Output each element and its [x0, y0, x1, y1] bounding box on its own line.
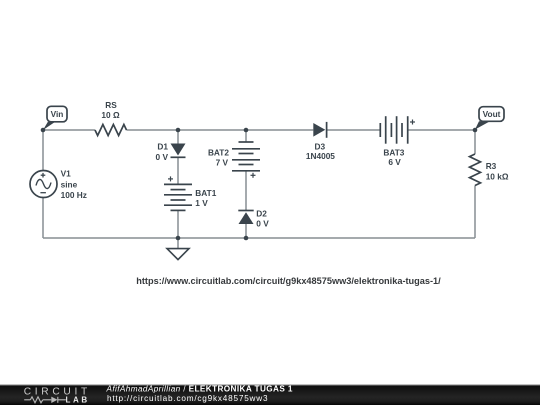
- voltage source V1: [30, 169, 87, 200]
- svg-text:10 Ω: 10 Ω: [101, 110, 120, 120]
- svg-text:BAT2: BAT2: [208, 148, 229, 158]
- logo LAB text: [66, 395, 90, 404]
- wire top: D3 cathode to BAT3: [327, 129, 381, 131]
- wire top middle: RS to D3: [127, 129, 314, 131]
- svg-text:RS: RS: [105, 100, 117, 110]
- wire bottom rail: [43, 237, 475, 239]
- svg-text:http://circuitlab.com/cg9kx485: http://circuitlab.com/cg9kx48575ww3: [107, 394, 268, 403]
- svg-text:10 kΩ: 10 kΩ: [486, 171, 509, 181]
- svg-text:BAT1: BAT1: [195, 188, 216, 198]
- svg-text:Vout: Vout: [483, 109, 501, 119]
- svg-text:sine: sine: [61, 180, 78, 190]
- svg-text:R3: R3: [486, 161, 497, 171]
- wire D1 cathode to BAT1: [177, 157, 179, 184]
- node BAT2 top junction: [244, 128, 249, 133]
- logo CIRCUIT text: [24, 387, 91, 398]
- net flag Vin: [43, 106, 67, 130]
- footer url line: [107, 394, 268, 403]
- svg-text:0 V: 0 V: [156, 152, 169, 162]
- diode D2: [238, 208, 269, 228]
- battery BAT3: [380, 116, 415, 167]
- ground: [167, 249, 189, 260]
- wire top right: BAT3 to Vout node: [408, 129, 475, 131]
- node ground junction: [176, 236, 181, 241]
- battery BAT1: [164, 176, 217, 210]
- wire right upper: Vout node to R3: [474, 130, 476, 154]
- wire BAT1 to bottom rail: [177, 210, 179, 238]
- wire top left: Vin node to RS: [43, 129, 95, 131]
- svg-text:0 V: 0 V: [256, 218, 269, 228]
- node Vout junction: [473, 128, 478, 133]
- svg-text:6 V: 6 V: [388, 157, 401, 167]
- wire BAT2 to D2: [245, 171, 247, 211]
- wire left upper: Vin node down to V1: [42, 130, 44, 171]
- wire right lower: R3 to bottom rail: [474, 186, 476, 239]
- svg-text:Vin: Vin: [51, 109, 64, 119]
- svg-text:V1: V1: [61, 169, 72, 179]
- svg-text:1 V: 1 V: [195, 198, 208, 208]
- svg-text:LAB: LAB: [66, 395, 90, 404]
- svg-text:BAT3: BAT3: [383, 147, 404, 157]
- footer title line: [106, 385, 293, 394]
- wire ground stub: [177, 238, 179, 249]
- wire D2 to bottom rail: [245, 224, 247, 238]
- resistor R3: [470, 154, 509, 186]
- svg-text:https://www.circuitlab.com/cir: https://www.circuitlab.com/circuit/g9kx4…: [136, 276, 441, 286]
- node D1 top junction: [176, 128, 181, 133]
- resistor RS: [95, 100, 127, 135]
- svg-text:D3: D3: [314, 141, 325, 151]
- svg-text:100 Hz: 100 Hz: [61, 190, 87, 200]
- net flag Vout: [475, 107, 504, 130]
- battery BAT2: [208, 142, 260, 178]
- svg-text:7 V: 7 V: [216, 158, 229, 168]
- wire left lower: V1 to bottom rail: [42, 198, 44, 239]
- footer bar: [0, 384, 540, 405]
- svg-text:AfifAhmadAprillian / ELEKTRONI: AfifAhmadAprillian / ELEKTRONIKA TUGAS 1: [106, 385, 293, 394]
- diode D1: [156, 141, 186, 162]
- svg-text:1N4005: 1N4005: [306, 151, 335, 161]
- wire D1 branch top: [177, 130, 179, 144]
- url text: [136, 276, 441, 286]
- logo schematic squiggle: [24, 397, 66, 403]
- node Vin junction: [41, 128, 46, 133]
- node D2 bottom junction: [244, 236, 249, 241]
- svg-text:D2: D2: [256, 208, 267, 218]
- diode D3: [306, 122, 335, 161]
- wire BAT2 branch top: [245, 130, 247, 142]
- svg-text:D1: D1: [157, 141, 168, 151]
